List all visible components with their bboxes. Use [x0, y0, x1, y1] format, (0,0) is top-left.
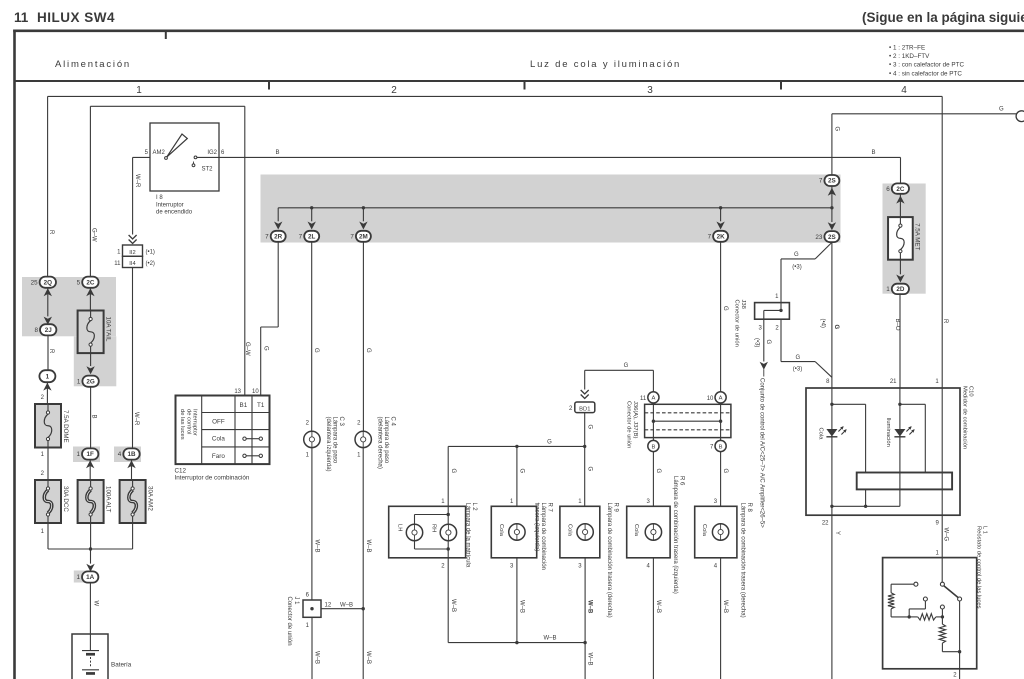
svg-text:B: B [719, 444, 723, 450]
svg-text:B–O: B–O [894, 319, 900, 331]
svg-text:OFF: OFF [212, 419, 225, 426]
svg-text:G: G [624, 363, 629, 369]
svg-text:Cola: Cola [633, 524, 639, 537]
svg-text:W–G: W–G [943, 528, 949, 542]
svg-text:G: G [313, 348, 319, 353]
svg-text:I 8: I 8 [156, 195, 163, 201]
svg-text:(•2): (•2) [146, 261, 155, 267]
svg-text:W–B: W–B [365, 651, 371, 664]
svg-text:1F: 1F [87, 451, 95, 458]
svg-text:G: G [795, 355, 800, 361]
svg-text:2C: 2C [86, 279, 95, 286]
svg-text:11: 11 [14, 10, 29, 25]
svg-text:5: 5 [77, 279, 81, 286]
svg-text:Cola: Cola [818, 428, 824, 441]
svg-text:2D: 2D [896, 286, 905, 293]
svg-text:W–B: W–B [313, 651, 319, 664]
svg-text:2K: 2K [717, 234, 726, 241]
svg-text:7: 7 [350, 234, 354, 241]
svg-text:• 4 : sin calefactor de PTC: • 4 : sin calefactor de PTC [889, 70, 962, 77]
svg-text:Cola: Cola [498, 524, 504, 537]
svg-text:Batería: Batería [111, 662, 132, 669]
svg-text:• 2 : 1KD–FTV: • 2 : 1KD–FTV [889, 53, 930, 60]
svg-text:21: 21 [890, 379, 897, 385]
svg-text:(•3): (•3) [792, 265, 801, 271]
svg-text:2M: 2M [359, 234, 368, 241]
svg-text:10: 10 [707, 396, 714, 402]
svg-text:7: 7 [708, 234, 712, 241]
svg-text:II2: II2 [129, 250, 135, 256]
svg-text:R: R [48, 230, 54, 235]
svg-text:AM2: AM2 [153, 150, 166, 156]
svg-text:12: 12 [325, 602, 332, 608]
svg-text:G: G [519, 469, 525, 474]
svg-text:G: G [765, 340, 771, 345]
svg-text:10: 10 [252, 389, 259, 395]
svg-text:7: 7 [265, 234, 269, 241]
svg-text:Interruptor de combinación: Interruptor de combinación [175, 474, 250, 481]
svg-text:G: G [655, 469, 661, 474]
svg-text:T1: T1 [257, 402, 265, 409]
svg-text:C12: C12 [175, 467, 187, 474]
svg-text:23: 23 [815, 234, 823, 241]
svg-text:B1: B1 [240, 402, 248, 409]
svg-text:10A TAIL: 10A TAIL [104, 317, 111, 342]
svg-text:30A AM2: 30A AM2 [146, 486, 153, 511]
svg-text:W–R: W–R [133, 412, 139, 426]
svg-text:• 3 : con calefactor de PTC: • 3 : con calefactor de PTC [889, 62, 964, 69]
svg-text:W–B: W–B [450, 599, 456, 612]
svg-text:Alimentación: Alimentación [55, 59, 131, 70]
svg-text:BD1: BD1 [579, 406, 590, 412]
svg-text:25: 25 [31, 279, 39, 286]
svg-text:RH: RH [431, 524, 437, 532]
svg-text:W–R: W–R [134, 174, 140, 188]
svg-text:1: 1 [76, 451, 80, 458]
svg-text:3: 3 [647, 85, 653, 96]
svg-text:22: 22 [822, 520, 829, 526]
svg-text:G: G [547, 440, 552, 446]
svg-text:G: G [722, 306, 728, 311]
svg-text:Faro: Faro [212, 453, 225, 460]
svg-text:8: 8 [34, 327, 38, 334]
svg-text:11: 11 [114, 261, 121, 267]
svg-text:LH: LH [397, 524, 403, 531]
svg-text:B: B [872, 150, 876, 156]
svg-text:Cola: Cola [212, 436, 225, 443]
svg-text:7.5A MET: 7.5A MET [914, 223, 921, 250]
svg-text:W–B: W–B [587, 653, 593, 666]
svg-text:2G: 2G [86, 378, 95, 385]
svg-text:W–B: W–B [519, 600, 525, 613]
svg-text:G: G [833, 325, 839, 330]
svg-text:2R: 2R [274, 234, 283, 241]
svg-text:A: A [719, 396, 723, 402]
svg-text:13: 13 [234, 389, 241, 395]
svg-text:100A ALT: 100A ALT [104, 486, 111, 513]
svg-text:7: 7 [819, 178, 823, 185]
svg-text:Iluminación: Iluminación [885, 418, 891, 447]
svg-text:1: 1 [136, 85, 142, 96]
svg-text:Y: Y [834, 531, 840, 535]
svg-text:2L: 2L [308, 234, 316, 241]
svg-text:G: G [262, 346, 268, 351]
svg-text:W–B: W–B [655, 600, 661, 613]
svg-text:G: G [586, 467, 592, 472]
svg-text:B: B [651, 444, 655, 450]
svg-text:B: B [90, 415, 96, 419]
svg-text:G: G [365, 348, 371, 353]
svg-text:Conjunto de control del A/C<25: Conjunto de control del A/C<25–7> A/C Am… [759, 378, 765, 528]
svg-text:• 1 : 2TR–FE: • 1 : 2TR–FE [889, 45, 925, 52]
svg-text:30A DCC: 30A DCC [62, 486, 69, 512]
svg-text:W–B: W–B [365, 540, 371, 553]
svg-text:II4: II4 [129, 261, 136, 267]
svg-text:2S: 2S [828, 234, 836, 241]
svg-text:Cola: Cola [701, 524, 707, 537]
svg-text:ST2: ST2 [202, 167, 214, 173]
svg-text:(•3): (•3) [754, 338, 760, 347]
svg-text:G–W: G–W [91, 228, 97, 242]
svg-text:2J: 2J [45, 327, 53, 334]
svg-text:G: G [450, 469, 456, 474]
svg-text:1: 1 [76, 574, 80, 581]
svg-text:R: R [48, 349, 54, 354]
svg-text:HILUX SW4: HILUX SW4 [37, 10, 115, 25]
svg-text:Cola: Cola [566, 524, 572, 537]
svg-text:4: 4 [901, 85, 907, 96]
svg-text:W–B: W–B [543, 635, 556, 641]
svg-text:G: G [794, 252, 799, 258]
svg-text:1: 1 [46, 373, 50, 380]
svg-text:2Q: 2Q [44, 279, 53, 286]
svg-text:1: 1 [886, 286, 890, 293]
svg-text:R: R [942, 319, 948, 324]
svg-text:G: G [834, 127, 840, 132]
svg-text:G: G [586, 425, 592, 430]
svg-text:G–W: G–W [244, 342, 250, 356]
svg-text:2S: 2S [828, 178, 836, 185]
svg-text:1B: 1B [127, 451, 136, 458]
svg-text:7: 7 [299, 234, 303, 241]
svg-text:W–B: W–B [340, 602, 353, 608]
svg-text:G: G [999, 107, 1004, 113]
svg-text:W–B: W–B [722, 600, 728, 613]
svg-text:(Sigue en la página siguiente): (Sigue en la página siguiente) [862, 10, 1024, 25]
svg-text:7.5A DOME: 7.5A DOME [62, 410, 69, 443]
svg-text:6: 6 [886, 186, 890, 193]
svg-text:(•3): (•3) [793, 367, 802, 373]
svg-text:W–B: W–B [313, 540, 319, 553]
svg-text:A: A [651, 396, 655, 402]
svg-text:IG2: IG2 [207, 150, 217, 156]
svg-text:W–B: W–B [587, 600, 593, 614]
svg-text:B: B [276, 150, 280, 156]
svg-text:W: W [92, 601, 98, 607]
svg-text:1: 1 [77, 378, 81, 385]
svg-text:11: 11 [640, 396, 647, 402]
svg-text:1A: 1A [86, 574, 95, 581]
svg-text:2: 2 [391, 85, 397, 96]
svg-text:2C: 2C [896, 186, 905, 193]
svg-text:Interruptor: Interruptor [156, 203, 184, 209]
svg-text:(•4): (•4) [820, 319, 826, 328]
svg-text:Luz de cola y iluminación: Luz de cola y iluminación [530, 59, 681, 70]
svg-text:(•1): (•1) [146, 250, 155, 256]
svg-text:G: G [722, 469, 728, 474]
svg-text:4: 4 [118, 451, 122, 458]
svg-text:de encendido: de encendido [156, 210, 193, 216]
